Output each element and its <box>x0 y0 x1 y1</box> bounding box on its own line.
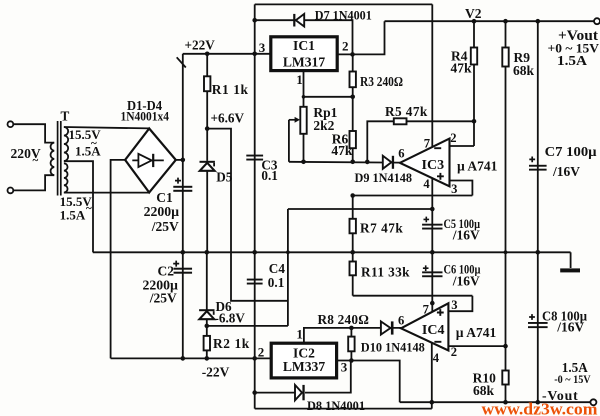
svg-text:6: 6 <box>398 314 404 328</box>
resistor R11 <box>352 252 354 295</box>
svg-text:R1 1k: R1 1k <box>212 82 249 97</box>
transformer T primary winding <box>51 143 55 176</box>
node junction R4 R5 pin2 <box>472 119 477 124</box>
svg-text:2: 2 <box>450 131 456 145</box>
svg-text:IC3: IC3 <box>422 158 445 173</box>
node +Vout terminal <box>594 18 600 24</box>
wire pin3 rail of IC4 <box>353 295 473 297</box>
svg-text:C1: C1 <box>156 190 173 205</box>
node junction R9 column 0V <box>504 250 508 254</box>
diode D7 <box>293 14 295 27</box>
node junction C2 -22V <box>181 356 186 361</box>
node junction C3 0V rail <box>252 250 257 255</box>
svg-text:1: 1 <box>296 72 303 87</box>
node -Vout terminal <box>590 399 596 405</box>
svg-text:68k: 68k <box>513 63 535 78</box>
wire +22V rail <box>183 53 271 55</box>
svg-text:1.5A: 1.5A <box>75 144 101 159</box>
svg-text:R7 47k: R7 47k <box>360 221 403 236</box>
wire IC4 pin4 supply <box>431 343 433 409</box>
svg-text:C2: C2 <box>158 264 175 279</box>
op-amp IC2 LM337 box <box>271 343 336 378</box>
svg-text:3: 3 <box>451 298 457 312</box>
svg-text:2: 2 <box>342 39 349 54</box>
svg-text:LM317: LM317 <box>283 55 325 70</box>
wire +6.6V node to lower network <box>207 129 288 301</box>
node junction V2 R9 <box>503 19 508 24</box>
wire reference node line <box>289 161 400 164</box>
wire IC4 pin2 input stub <box>448 345 505 347</box>
svg-text:D9 1N4148: D9 1N4148 <box>355 170 413 185</box>
svg-text:LM337: LM337 <box>283 359 325 374</box>
diode D9 <box>383 156 392 169</box>
transformer T core <box>57 121 59 196</box>
svg-text:2: 2 <box>258 345 265 360</box>
wire IC1 pin1 ADJ <box>304 71 353 97</box>
node AC input terminal top <box>7 121 13 127</box>
wire secondary center tap to 0V rail <box>64 161 93 252</box>
transformer T secondary upper winding <box>64 127 68 161</box>
resistor R3 <box>352 54 354 161</box>
svg-text:1.5A: 1.5A <box>557 53 587 68</box>
node junction R6 bottom <box>350 160 355 165</box>
node junction +22V R1 <box>205 52 210 57</box>
svg-text:~: ~ <box>33 155 39 167</box>
svg-text:/16V: /16V <box>452 228 480 243</box>
node junction C4 column -22V <box>252 356 257 361</box>
node junction D7 anode column <box>252 18 257 23</box>
wire secondary bottom to bridge <box>64 192 149 194</box>
svg-text:2k2: 2k2 <box>313 118 334 133</box>
capacitor C5 <box>431 209 433 252</box>
capacitor C1 <box>173 186 192 188</box>
wire D8 branch <box>255 392 295 394</box>
node +6.6V junction <box>205 126 210 131</box>
node junction ADJ R3 R6 <box>350 95 355 100</box>
capacitor C2 <box>182 252 184 358</box>
svg-text:47k: 47k <box>451 61 473 76</box>
wire IC4 pin3 input stub <box>448 296 472 312</box>
wire bridge right vertex to +22V node <box>176 159 183 161</box>
svg-text:C4: C4 <box>269 261 286 276</box>
svg-text:6: 6 <box>398 146 404 160</box>
resistor R2 <box>204 336 210 351</box>
op-amp IC4 uA741 <box>401 303 448 350</box>
svg-text:3: 3 <box>341 360 348 375</box>
node junction bridge+ C1 <box>181 158 186 163</box>
node junction C5 C6 0V <box>430 250 435 255</box>
node junction R8 top <box>349 326 354 331</box>
node junction V2 C7 <box>536 19 541 24</box>
node junction R7 pin3 rail <box>350 193 355 198</box>
wire -6.8V horizontal link <box>207 325 288 327</box>
svg-text:47k: 47k <box>331 143 353 158</box>
svg-text:0.1: 0.1 <box>268 275 284 290</box>
capacitor C6 <box>431 252 433 311</box>
node junction D9 R5 <box>365 160 370 165</box>
op-amp IC1 LM317 box <box>271 37 337 71</box>
svg-text:/16V: /16V <box>552 164 580 179</box>
node junction Rp1 bottom <box>301 160 306 165</box>
svg-text:1N4001x4: 1N4001x4 <box>121 109 170 124</box>
svg-text:+6.6V: +6.6V <box>211 111 245 126</box>
node -6.8V junction <box>205 324 210 329</box>
node junction pin2 R3 D7 <box>350 52 355 57</box>
node AC input terminal bottom <box>7 188 13 194</box>
wire IC3 pin2 input stub <box>450 145 475 147</box>
svg-text:2200µ: 2200µ <box>144 204 180 219</box>
wire V2 rail <box>385 20 598 22</box>
ground <box>570 252 572 268</box>
svg-text:4: 4 <box>423 177 430 191</box>
svg-text:T: T <box>61 109 70 124</box>
wire IC3 pin3 input stub <box>450 181 473 196</box>
svg-text:R8 240Ω: R8 240Ω <box>318 312 370 327</box>
capacitor C7 <box>537 21 539 252</box>
wire IC2 pin3 stub <box>337 361 400 403</box>
svg-text:2: 2 <box>451 345 457 359</box>
wire 0V common rail <box>93 251 571 253</box>
op-amp IC3 uA741 <box>400 139 450 187</box>
wire Rp1 wiper <box>288 120 290 162</box>
svg-text:R2 1k: R2 1k <box>213 336 250 351</box>
svg-text:68k: 68k <box>473 383 495 398</box>
potentiometer Rp1 <box>303 97 305 162</box>
zener diode D6 <box>206 252 208 358</box>
node junction C1 0V <box>181 250 186 255</box>
node junction D8 anode column <box>252 390 257 395</box>
transformer T secondary lower winding <box>64 163 68 192</box>
wire C3 C4 column vertical <box>254 4 256 408</box>
svg-text:1: 1 <box>296 327 303 342</box>
svg-text:3: 3 <box>259 40 266 55</box>
wire R5 feedback branch <box>367 121 474 162</box>
node junction V2 R4 <box>472 19 477 24</box>
resistor R1 <box>206 54 208 161</box>
svg-text:IC4: IC4 <box>422 323 445 338</box>
svg-text:R11 33k: R11 33k <box>361 265 410 280</box>
wire AC input top <box>13 124 54 142</box>
svg-text:-0 ~ 15V: -0 ~ 15V <box>554 372 591 386</box>
wire vertical x288 link <box>287 209 289 326</box>
svg-text:µ A741: µ A741 <box>456 325 497 340</box>
resistor R9 <box>505 21 507 402</box>
node junction pin4 bottom rail <box>430 400 435 405</box>
svg-text:7: 7 <box>423 303 429 317</box>
svg-text:D10 1N4148: D10 1N4148 <box>361 339 425 354</box>
svg-text:+22V: +22V <box>185 38 216 53</box>
wire IC1 pin2 output <box>337 21 384 54</box>
resistor R8 <box>350 328 352 361</box>
diode D10 <box>381 321 391 334</box>
wire -22V rail <box>111 357 272 359</box>
svg-text:4: 4 <box>433 351 440 365</box>
node junction pin2 divider <box>503 344 508 349</box>
node junction IC4 pin7 <box>430 301 435 306</box>
resistor R5 <box>394 118 407 124</box>
node junction R10 bottom rail <box>503 400 508 405</box>
svg-text:0.1: 0.1 <box>261 168 277 183</box>
bridge rectifier D1-D4 <box>125 129 176 193</box>
svg-text:www.dz3w.com: www.dz3w.com <box>482 400 599 416</box>
wire lower -V rail <box>255 408 432 410</box>
svg-text:R3 240Ω: R3 240Ω <box>360 74 403 89</box>
svg-text:7: 7 <box>424 137 430 151</box>
node junction C5 rail pin4 <box>430 207 435 212</box>
svg-text:~: ~ <box>86 203 92 215</box>
wire IC3 pin7 supply <box>431 4 433 146</box>
capacitor C3 <box>246 155 263 157</box>
wire IC2 pin1 ADJ line <box>304 328 401 343</box>
svg-text:V2: V2 <box>465 6 482 21</box>
node junction C8 bottom rail <box>536 400 541 405</box>
wire secondary top to bridge <box>64 127 149 128</box>
node junction R8 bottom pin3 <box>349 358 354 363</box>
zener diode D5 <box>200 161 215 163</box>
resistor R4 <box>473 21 475 146</box>
svg-text:3: 3 <box>451 182 457 196</box>
svg-text:/16V: /16V <box>556 320 584 335</box>
wire break mark near +22V corner <box>177 57 186 67</box>
svg-text:/25V: /25V <box>149 291 177 306</box>
resistor R7 <box>352 196 354 253</box>
capacitor C4 <box>247 279 263 281</box>
wire +22V top rail to IC3 supply <box>255 3 433 5</box>
svg-text:-22V: -22V <box>202 365 230 380</box>
svg-text:-6.8V: -6.8V <box>215 311 246 326</box>
node junction R2 -22V <box>205 356 210 361</box>
wire IC3 pin4 supply <box>431 179 433 209</box>
node junction D5 0V <box>205 250 210 255</box>
diode D8 <box>295 385 302 400</box>
node junction C7 C8 0V <box>536 250 541 255</box>
svg-text:µ A741: µ A741 <box>457 158 498 173</box>
svg-text:/25V: /25V <box>151 219 179 234</box>
wire C5 rail <box>288 208 432 210</box>
svg-text:D7 1N4001: D7 1N4001 <box>315 8 372 23</box>
wire bridge left vertex to -22V rail <box>111 160 126 359</box>
svg-text:D8 1N4001: D8 1N4001 <box>307 398 365 413</box>
node junction x288 0V <box>286 250 290 254</box>
resistor R10 <box>502 371 508 385</box>
resistor R6 <box>350 131 356 148</box>
capacitor C8 <box>537 252 539 402</box>
svg-text:IC1: IC1 <box>293 38 315 53</box>
svg-text:C7 100µ: C7 100µ <box>545 144 597 159</box>
wire +22V vertical from bridge output <box>182 54 184 253</box>
node junction +22V C3 column <box>252 52 257 57</box>
node junction R7 R11 0V <box>350 250 355 255</box>
wire pin3 rail <box>353 195 473 197</box>
wire AC input bottom <box>13 175 54 190</box>
wire D7 branch <box>255 20 353 54</box>
wire bottom output rail <box>400 401 594 403</box>
svg-text:R5 47k: R5 47k <box>385 104 428 119</box>
svg-text:/16V: /16V <box>452 274 480 289</box>
svg-text:1.5A: 1.5A <box>60 208 86 223</box>
